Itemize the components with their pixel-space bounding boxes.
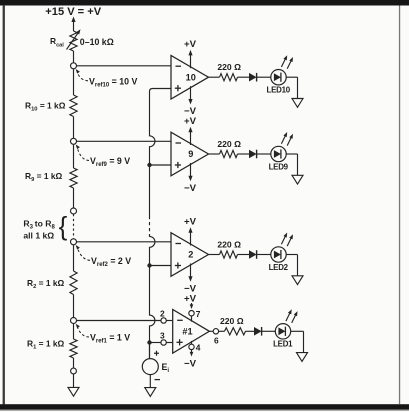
svg-text:LED2: LED2	[269, 263, 289, 272]
svg-text:0–10 kΩ: 0–10 kΩ	[80, 37, 114, 47]
svg-text:2: 2	[160, 309, 165, 319]
svg-text:220 Ω: 220 Ω	[217, 139, 241, 149]
svg-text:#1: #1	[182, 327, 192, 337]
svg-text:LED10: LED10	[267, 86, 291, 95]
svg-text:220 Ω: 220 Ω	[217, 239, 241, 249]
svg-text:9: 9	[188, 149, 193, 159]
svg-text:−V: −V	[184, 359, 197, 370]
svg-text:3: 3	[160, 331, 165, 341]
svg-text:10: 10	[186, 72, 196, 82]
svg-text:4: 4	[196, 343, 201, 353]
svg-text:7: 7	[196, 309, 201, 319]
svg-text:−V: −V	[184, 183, 197, 194]
svg-text:2: 2	[188, 250, 193, 260]
svg-text:all 1 kΩ: all 1 kΩ	[23, 231, 54, 241]
svg-text:220 Ω: 220 Ω	[220, 316, 244, 326]
svg-text:{: {	[59, 211, 68, 241]
svg-text:+V: +V	[184, 116, 197, 127]
svg-text:+V: +V	[184, 217, 197, 228]
svg-text:220 Ω: 220 Ω	[217, 62, 241, 72]
svg-text:LED9: LED9	[269, 162, 289, 171]
svg-text:+V: +V	[184, 39, 197, 50]
svg-text:LED1: LED1	[273, 340, 293, 349]
svg-text:+V: +V	[184, 294, 197, 305]
svg-text:+15 V = +V: +15 V = +V	[45, 6, 101, 18]
svg-text:6: 6	[214, 335, 219, 345]
